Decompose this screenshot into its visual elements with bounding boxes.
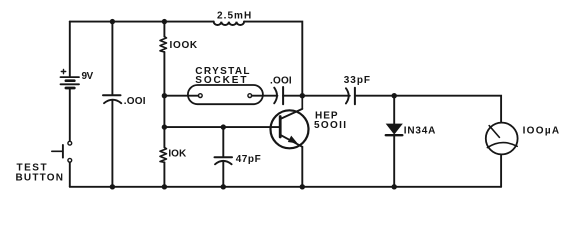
wire R2 bottom lead: [163, 162, 165, 187]
label HEP 50011: [314, 110, 347, 131]
svg-text:IOOµA: IOOµA: [523, 126, 561, 137]
wire base node to R2: [163, 127, 165, 147]
capacitor C2 .001 series: [274, 87, 283, 104]
wire battery bottom lead: [69, 88, 71, 141]
junction base node left: [162, 124, 167, 129]
junction crystal node: [162, 93, 167, 98]
wire socket right pin to C2: [252, 95, 278, 97]
svg-text:47pF: 47pF: [236, 154, 262, 165]
wire crystal node to base node: [163, 96, 165, 127]
wire C1 top lead: [111, 22, 113, 95]
junction bottom rail at emitter: [300, 184, 305, 189]
wire collector node to 33pF: [302, 95, 350, 97]
wire R1 to crystal node: [163, 52, 165, 96]
wire top rail left segment: [70, 21, 214, 23]
battery B1: [61, 69, 80, 88]
meter M1: [486, 123, 518, 155]
svg-text:BUTTON: BUTTON: [16, 173, 65, 184]
crystal socket: [188, 85, 263, 104]
svg-text:IN34A: IN34A: [404, 126, 436, 137]
junction bottom rail at diode: [392, 184, 397, 189]
wire base lead: [164, 126, 280, 128]
resistor R1 100K: [160, 37, 167, 52]
junction bottom rail at C1: [110, 184, 115, 189]
svg-text:33pF: 33pF: [344, 75, 371, 86]
transistor Q1: [271, 96, 309, 149]
svg-text:IOOK: IOOK: [170, 40, 198, 51]
wire node to crystal socket left pin: [164, 95, 198, 97]
junction collector node: [300, 93, 305, 98]
junction bottom rail at R2: [162, 184, 167, 189]
svg-text:9V: 9V: [82, 71, 94, 82]
capacitor C3 47pF: [215, 157, 233, 164]
resistor R2 10K: [160, 147, 167, 162]
wire switch to bottom rail: [69, 162, 71, 186]
inductor L1: [214, 22, 244, 25]
wire R1 top lead: [163, 22, 165, 37]
wire C1 bottom lead: [111, 101, 113, 187]
wire bottom rail: [70, 186, 501, 188]
wire C3 top lead: [222, 127, 224, 157]
capacitor C1 .001: [103, 95, 121, 103]
svg-text:.OOI: .OOI: [124, 96, 146, 107]
wire C2 to collector node: [283, 95, 302, 97]
svg-text:2.5mH: 2.5mH: [217, 10, 252, 21]
pushbutton switch S1: [52, 141, 72, 162]
junction diode node: [392, 93, 397, 98]
wire diode top lead: [393, 96, 395, 125]
svg-text:IOK: IOK: [168, 148, 187, 159]
wire diode node to meter with corner: [394, 96, 501, 123]
capacitor C4 33pF: [346, 88, 355, 104]
label TEST BUTTON: [16, 163, 65, 184]
junction bottom rail at C3: [221, 184, 226, 189]
svg-text:SOCKET: SOCKET: [195, 75, 248, 86]
svg-text:5OOII: 5OOII: [314, 120, 347, 131]
junction top rail at C1: [110, 19, 115, 24]
svg-text:.OOI: .OOI: [270, 75, 292, 86]
wire diode bottom lead: [393, 135, 395, 187]
wire top rail right segment with corner down to node: [244, 22, 302, 96]
wire emitter lead to bottom rail: [301, 147, 303, 187]
diode D1: [386, 124, 403, 135]
junction top rail at R1: [162, 19, 167, 24]
wire 33pF to diode node: [355, 95, 394, 97]
junction base node at C3: [221, 124, 226, 129]
label CRYSTAL SOCKET: [195, 66, 251, 86]
wire meter bottom lead: [500, 154, 502, 186]
wire battery top lead: [69, 22, 71, 77]
wire C3 bottom lead: [222, 162, 224, 187]
